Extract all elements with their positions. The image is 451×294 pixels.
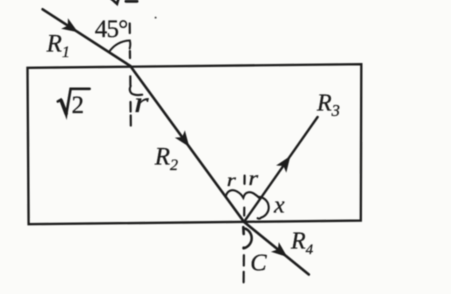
- svg-text:R3: R3: [316, 91, 340, 121]
- 45 degree angle arc: [109, 41, 130, 53]
- svg-text:r: r: [134, 87, 149, 120]
- svg-text:C: C: [250, 249, 267, 276]
- emergent ray R4: [244, 222, 309, 275]
- arrowhead on R1: [61, 18, 78, 32]
- svg-text:45°: 45°: [95, 16, 128, 43]
- dashed normal at top surface: [130, 24, 131, 126]
- svg-text:r: r: [248, 168, 258, 190]
- svg-text:r: r: [227, 170, 237, 191]
- cropped sqrt(2) at top edge: radical tip: [111, 0, 121, 4]
- arrowhead on R3: [276, 156, 290, 173]
- arrowhead on R2: [175, 130, 189, 147]
- angle r arcs (cloud) at bottom point: [226, 190, 260, 198]
- angle x arc: [258, 197, 269, 219]
- svg-text:R2: R2: [154, 144, 178, 175]
- angle r arc at top point: [130, 86, 142, 95]
- incident ray R1: [43, 9, 131, 66]
- dashed normal at bottom surface: [244, 176, 245, 283]
- refracted ray R2: [130, 66, 244, 222]
- svg-text:x: x: [273, 192, 285, 218]
- glass slab rectangle: [28, 64, 362, 224]
- svg-text:R1: R1: [46, 31, 70, 62]
- svg-text:2: 2: [72, 92, 85, 119]
- svg-text:R4: R4: [290, 229, 314, 259]
- arrowhead on R4: [271, 242, 287, 257]
- angle C arc: [242, 227, 245, 234]
- speck: [155, 17, 157, 19]
- internally reflected ray R3: [244, 117, 318, 222]
- refractive index sqrt(2) radical sign: [58, 89, 90, 115]
- cropped sqrt(2) at top edge: bottom bar of 2: [126, 0, 137, 3]
